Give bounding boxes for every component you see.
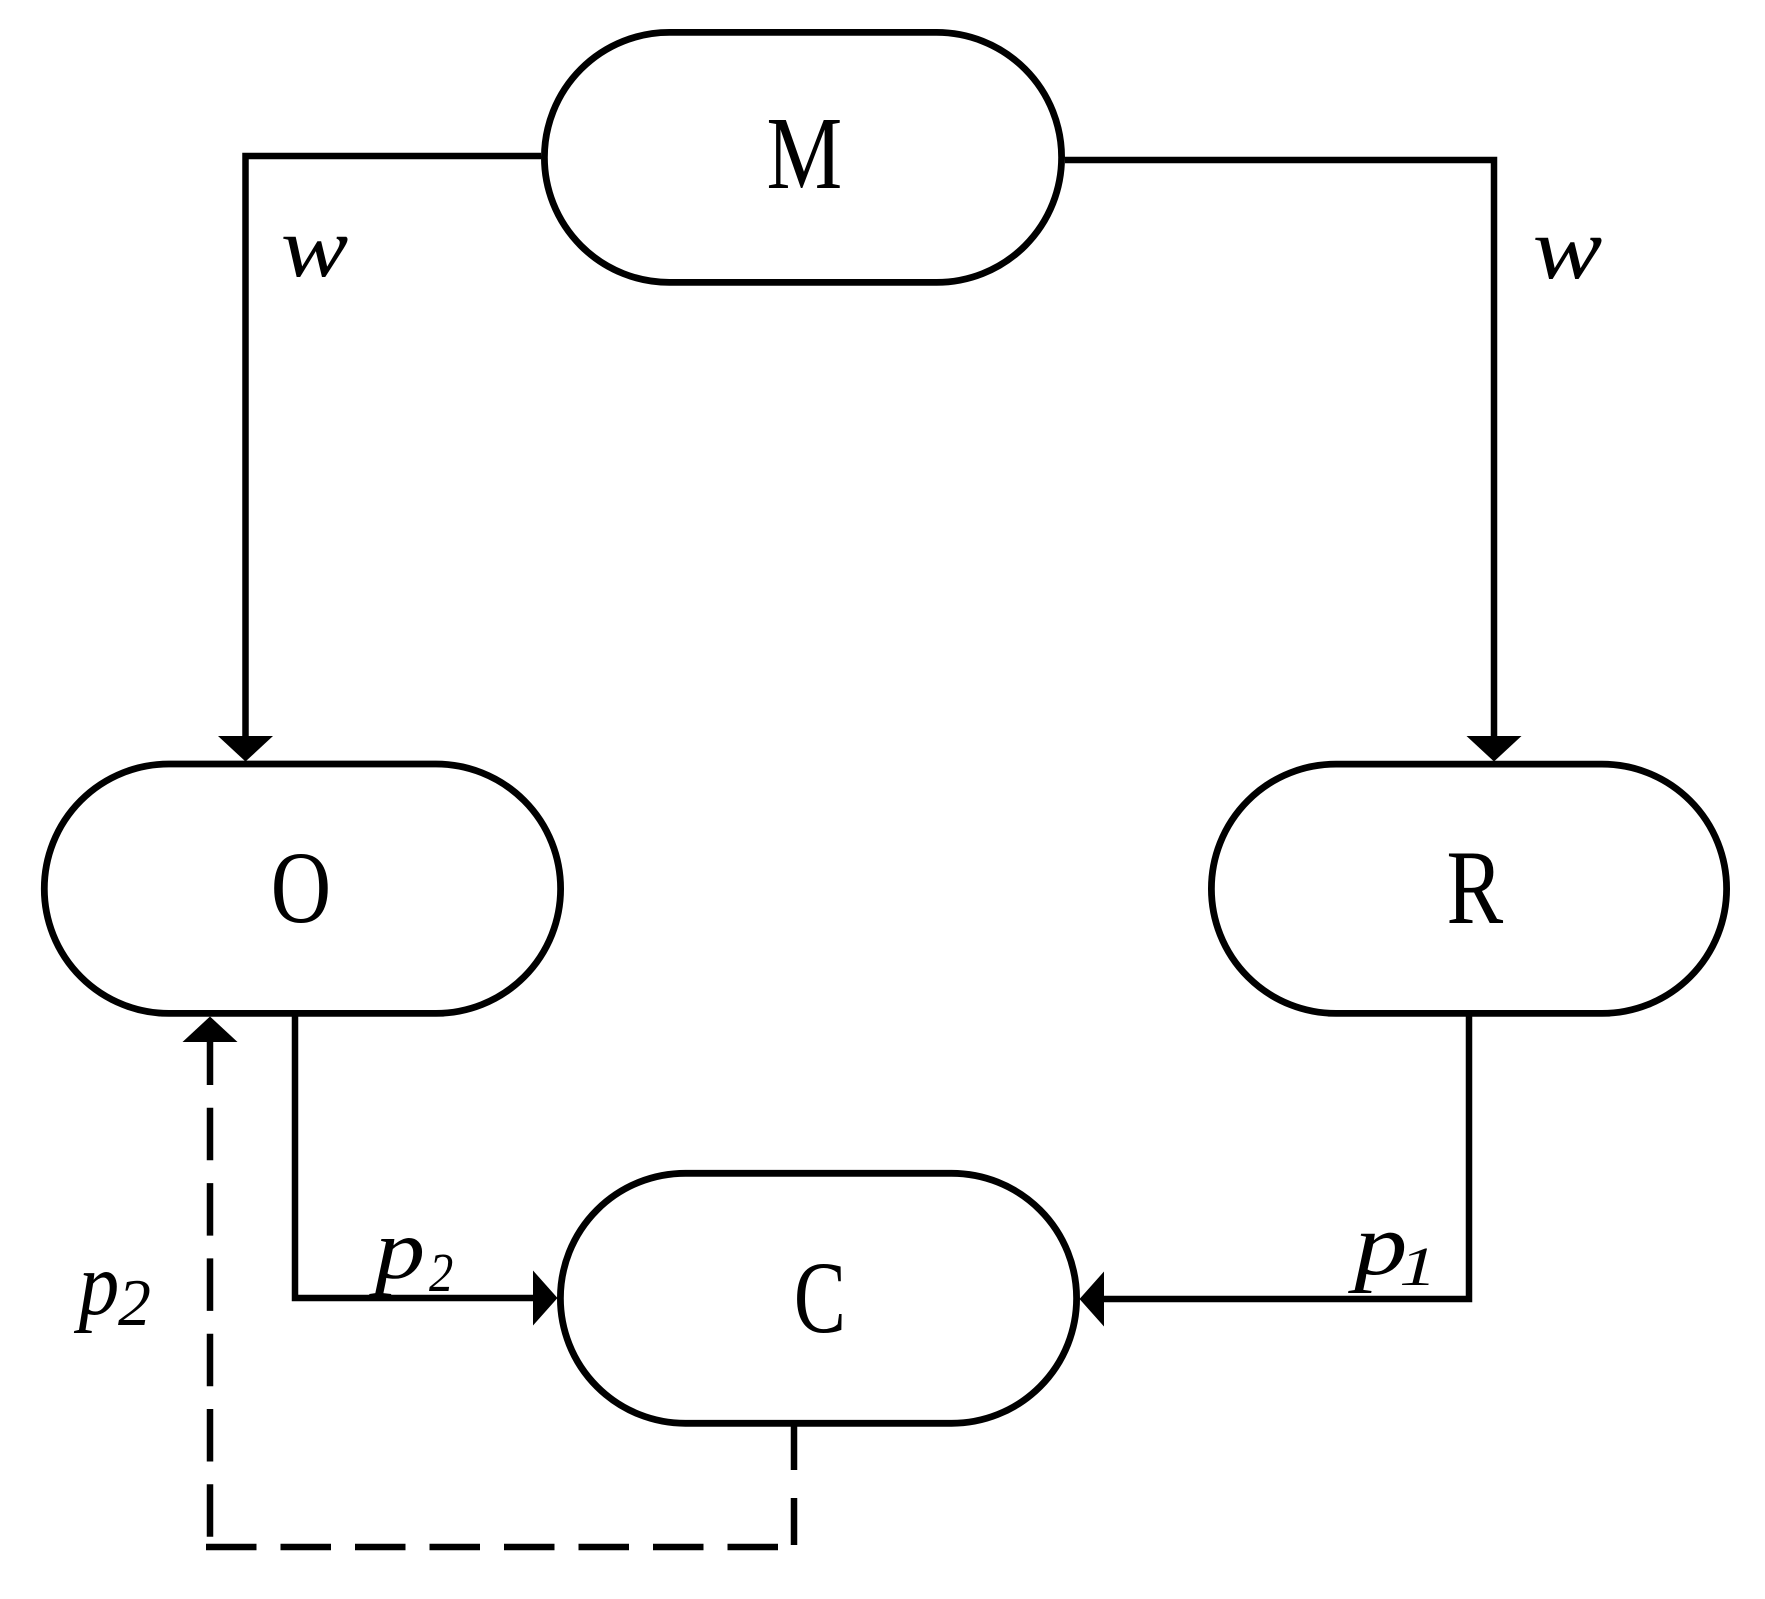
svg-text:O: O [271,832,331,945]
arrowhead into O top [218,736,273,762]
wire O to C (p2) [295,1013,533,1298]
node C [560,1173,1076,1423]
svg-text:p: p [74,1236,119,1334]
svg-text:2: 2 [429,1243,453,1304]
wire M to O (w) [246,156,542,738]
node R [1211,764,1726,1013]
label p2 (mid) [368,1203,453,1304]
svg-text:2: 2 [118,1267,151,1340]
node M [544,32,1061,282]
arrowhead into R top [1467,736,1522,762]
arrowhead into C left [533,1271,558,1326]
dashed wire C to O (p2 feedback), vertical segment under C [791,1423,798,1547]
svg-text:M: M [766,95,842,211]
arrowhead into C right [1080,1272,1105,1327]
wire M to R (w) [1065,160,1494,738]
label p1 [1348,1197,1437,1298]
svg-text:C: C [794,1241,846,1355]
svg-text:1: 1 [1399,1236,1437,1297]
svg-text:R: R [1446,829,1503,946]
svg-text:w: w [281,200,349,295]
dashed wire C to O, horizontal segment [206,1544,794,1551]
svg-text:p: p [368,1203,425,1297]
svg-text:w: w [1533,200,1603,297]
arrowhead into O bottom [183,1017,238,1043]
node O [44,764,560,1013]
wire R to C (p1) [1104,1013,1469,1299]
label p2 (left, feedback) [74,1236,151,1341]
dashed wire C to O, vertical segment up to O [207,1042,214,1547]
